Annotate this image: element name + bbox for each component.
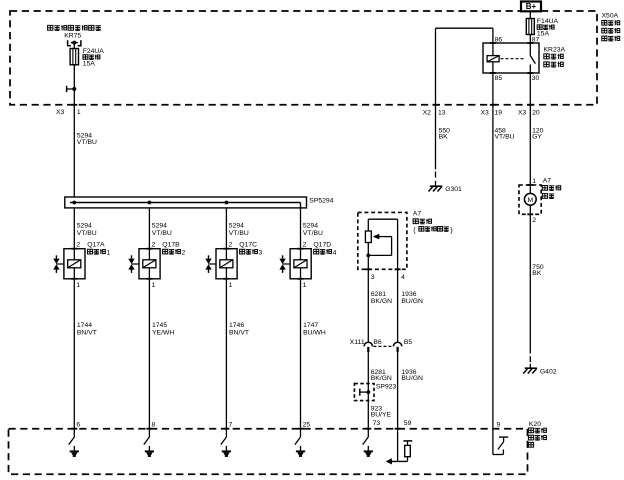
motor pin 1 label	[532, 178, 536, 185]
K20 pin 6 label	[76, 422, 80, 429]
wire X3-1 to splice pack SP5294, 5294 VT/BU	[71, 105, 77, 197]
wire SP5294 to injector Q17D, 5294 VT/BU	[300, 208, 302, 249]
label A7 燃油泵电机	[542, 177, 560, 198]
svg-text:BK/GN: BK/GN	[371, 375, 392, 382]
K20 low-side driver and ground for Q17B	[144, 429, 154, 457]
svg-text:B6: B6	[373, 339, 382, 346]
svg-text:X3: X3	[518, 110, 527, 117]
svg-text:2: 2	[182, 249, 186, 256]
svg-text:B5: B5	[404, 339, 413, 346]
svg-text:VT/BU: VT/BU	[229, 230, 249, 237]
svg-text:BN/VT: BN/VT	[77, 329, 97, 336]
wire F24UA to connector X3 pin 1	[73, 65, 75, 105]
K20 pin 9 internal switch	[493, 429, 508, 455]
svg-text:5294: 5294	[303, 223, 318, 230]
K20 pin 8 label	[152, 422, 156, 429]
svg-text:BK: BK	[439, 134, 449, 141]
svg-text:KR75: KR75	[64, 32, 81, 39]
relay KR75 contact symbol	[68, 40, 81, 46]
splice pack SP5294	[65, 197, 334, 208]
svg-text:BK: BK	[532, 270, 542, 277]
in-line terminal symbol on wire	[67, 86, 77, 92]
pin 87 label	[532, 37, 540, 44]
K20 pin 59 label	[404, 420, 412, 427]
wire SP5294 to injector Q17C, 5294 VT/BU	[225, 208, 227, 249]
ground G301	[429, 172, 463, 193]
wire label 6281 BK/GN below X111	[371, 369, 392, 382]
label 发动机控制继电器 KR75	[48, 25, 101, 39]
label K20 发动机控制模块	[528, 421, 546, 447]
svg-text:13: 13	[438, 110, 446, 117]
svg-text:Q17A: Q17A	[87, 242, 105, 249]
label Q17B pin 1	[152, 282, 156, 289]
svg-text:VT/BU: VT/BU	[152, 230, 172, 237]
connector X2 pin 13 labels	[423, 110, 446, 117]
label Q17A pin 1	[76, 282, 80, 289]
wire label 1745 YE/WH	[152, 322, 174, 336]
svg-text:X2: X2	[423, 110, 432, 117]
svg-text:SP5294: SP5294	[309, 198, 333, 205]
label Q17D pin 1	[303, 282, 307, 289]
label Q17C 喷油器3	[239, 242, 262, 257]
svg-text:5294: 5294	[152, 223, 167, 230]
svg-text:BN/VT: BN/VT	[229, 329, 249, 336]
sensor pin 3 label	[371, 274, 375, 281]
svg-text:G402: G402	[540, 369, 557, 376]
svg-text:5294: 5294	[77, 223, 92, 230]
battery B+ terminal	[521, 2, 541, 12]
wire label 1744 BN/VT	[77, 322, 97, 336]
connector X3 pin 20 labels	[518, 110, 540, 117]
sensor pin 4 label	[401, 274, 405, 281]
svg-text:2: 2	[76, 242, 80, 249]
level sensor wiper arm with arrow	[366, 219, 397, 269]
svg-text:3: 3	[371, 274, 375, 281]
injector Q17A 喷油器1	[53, 249, 85, 279]
connector X3 pin 1 labels	[56, 109, 81, 116]
label Q17A 喷油器1	[87, 242, 110, 257]
svg-text:X111: X111	[350, 339, 365, 346]
fuse F14UA 15A	[526, 18, 558, 37]
K20 pin 9 label	[497, 422, 501, 429]
fuse block X50A dashed enclosure	[10, 11, 597, 105]
svg-text:15A: 15A	[83, 61, 96, 68]
svg-text:X50A: X50A	[602, 12, 619, 19]
ground G402	[523, 356, 556, 375]
wire relay pin 85 to K20 pin 9	[490, 73, 496, 429]
svg-text:2: 2	[532, 217, 536, 224]
svg-text:X3: X3	[481, 110, 490, 117]
svg-text:25: 25	[303, 422, 311, 429]
svg-text:2: 2	[229, 242, 233, 249]
K20 pin 7 label	[229, 422, 233, 429]
pin 85 label	[495, 75, 503, 82]
svg-text:GY: GY	[532, 134, 542, 141]
svg-text:9: 9	[497, 422, 501, 429]
wire injector Q17D to K20 pin 25, 1747 BU/WH	[298, 279, 304, 429]
wire relay pin 86 to X2 pin 13	[433, 28, 493, 169]
svg-text:B+: B+	[526, 2, 537, 11]
svg-text:1: 1	[152, 282, 156, 289]
svg-text:YE/WH: YE/WH	[152, 329, 174, 336]
svg-text:1936: 1936	[401, 291, 416, 298]
fuel level sensor A7 燃油泵(液位传感器) dashed box	[358, 212, 407, 269]
relay coil KR23A	[487, 43, 499, 73]
K20 low-side driver and ground for Q17A	[69, 429, 79, 457]
connector X111 dashed link	[373, 345, 392, 347]
svg-text:VT/BU: VT/BU	[77, 230, 97, 237]
wire label 458 VT/BU	[495, 128, 515, 141]
wire label 5294 VT/BU (Q17A)	[77, 223, 97, 237]
wire label 1746 BN/VT	[229, 322, 249, 336]
wire SP5294 to injector Q17A, 5294 VT/BU	[73, 208, 75, 249]
svg-text:A7: A7	[543, 177, 552, 184]
wire relay pin 30 to fuel pump	[527, 73, 533, 185]
relay switch contact 87-30	[530, 43, 535, 73]
svg-text:5294: 5294	[229, 223, 244, 230]
label Q17C pin 1	[229, 282, 233, 289]
svg-text:G301: G301	[445, 186, 462, 193]
svg-text:X3: X3	[56, 109, 65, 116]
K20 low-side driver and ground for Q17C	[221, 429, 231, 457]
fuse F24UA 15A	[70, 48, 104, 68]
injector Q17D 喷油器4	[279, 249, 311, 279]
wire fuse F14UA to relay pin 87	[529, 35, 531, 44]
wire label 5294 VT/BU	[77, 132, 97, 146]
splice SP923	[354, 384, 396, 401]
injector Q17B 喷油器2	[128, 249, 160, 279]
wire label 5294 VT/BU (Q17C)	[229, 223, 249, 237]
K20 pin 73 label	[373, 420, 381, 427]
level sensor resistor element	[365, 219, 371, 269]
svg-text:BU/GN: BU/GN	[401, 298, 423, 305]
label X111	[350, 339, 365, 346]
svg-text:BU/YE: BU/YE	[371, 412, 392, 419]
wire injector Q17C to K20 pin 7, 1746 BN/VT	[223, 279, 229, 429]
wire sensor pin 4 to X111 B5, 1936 BU/GN	[397, 269, 399, 342]
connector X111 terminal B6	[364, 342, 372, 352]
K20 low-side driver and ground for Q17D	[295, 429, 305, 457]
svg-text:1: 1	[229, 282, 233, 289]
svg-text:1: 1	[532, 178, 536, 185]
svg-text:M: M	[527, 197, 533, 204]
svg-text:): )	[450, 225, 452, 234]
wire label 750 BK	[532, 264, 544, 277]
wire motor pin 2 to ground G402, 750 BK	[529, 214, 531, 353]
svg-text:1: 1	[303, 282, 307, 289]
svg-text:1: 1	[76, 282, 80, 289]
wire label 5294 VT/BU (Q17B)	[152, 223, 172, 237]
svg-text:1747: 1747	[303, 322, 318, 329]
svg-text:1746: 1746	[229, 322, 244, 329]
pin ticks on relay box	[490, 43, 533, 73]
label B6	[373, 339, 382, 346]
svg-text:8: 8	[152, 422, 156, 429]
fuel pump motor A7 燃油泵电机 dashed box	[519, 185, 541, 214]
svg-text:4: 4	[401, 274, 405, 281]
wire B+ to fuse F14UA	[529, 11, 531, 18]
wire injector Q17B to K20 pin 8, 1745 YE/WH	[146, 279, 152, 429]
label Q17D pin 2	[303, 242, 307, 249]
svg-text:85: 85	[495, 75, 503, 82]
svg-text:Q17C: Q17C	[239, 242, 257, 249]
wire label 923 BU/YE	[371, 405, 392, 418]
wire X111 B6 to K20 pin 73	[365, 352, 371, 429]
svg-text:6281: 6281	[371, 291, 386, 298]
svg-text:A7: A7	[413, 211, 422, 218]
svg-text:3: 3	[259, 249, 263, 256]
K20 low-side driver and ground for pin 73	[363, 429, 373, 457]
connector X111 terminal B5	[393, 342, 401, 352]
svg-text:2: 2	[152, 242, 156, 249]
label Q17B pin 2	[152, 242, 156, 249]
svg-text:1: 1	[106, 249, 110, 256]
svg-text:KR23A: KR23A	[544, 47, 566, 54]
wire label 550 BK	[439, 128, 451, 141]
svg-text:VT/BU: VT/BU	[303, 230, 323, 237]
svg-text:6: 6	[76, 422, 80, 429]
svg-text:1: 1	[77, 109, 81, 116]
svg-text:VT/BU: VT/BU	[495, 134, 515, 141]
injector Q17C 喷油器3	[205, 249, 237, 279]
label A7 燃油泵 (液位传感器)	[413, 211, 453, 235]
label B5	[404, 339, 413, 346]
label Q17D 喷油器4	[313, 242, 336, 257]
svg-text:Q17B: Q17B	[162, 242, 180, 249]
wire sensor pin 3 to X111 B6, 6281 BK/GN	[367, 269, 369, 342]
label Q17A pin 2	[76, 242, 80, 249]
svg-text:30: 30	[532, 75, 540, 82]
svg-text:BK/GN: BK/GN	[371, 298, 392, 305]
svg-text:K20: K20	[529, 421, 541, 428]
label X50A 发动机舱下保险丝盒	[602, 12, 620, 41]
label KR23A 燃油泵继电器	[544, 47, 566, 68]
wire label 5294 VT/BU (Q17D)	[303, 223, 323, 237]
sensor pin ticks	[365, 268, 400, 270]
wire label 1936 BU/GN	[401, 291, 423, 305]
motor pin 2 label	[532, 217, 536, 224]
relay actuation dashed link	[501, 58, 524, 60]
engine control module K20 dashed box	[9, 429, 528, 475]
wire SP5294 to injector Q17B, 5294 VT/BU	[148, 208, 150, 249]
svg-text:Q17D: Q17D	[313, 242, 331, 249]
svg-text:2: 2	[303, 242, 307, 249]
K20 pin 25 label	[303, 422, 311, 429]
K20 pin 59 internal resistor and signal arrow	[386, 429, 413, 465]
svg-text:BU/WH: BU/WH	[303, 329, 326, 336]
svg-text:73: 73	[373, 420, 381, 427]
wire X111 B5 to K20 pin 59	[395, 352, 401, 429]
wire label 1747 BU/WH	[303, 322, 326, 336]
svg-text:19: 19	[495, 110, 503, 117]
svg-text:1744: 1744	[77, 322, 92, 329]
svg-text:F24UA: F24UA	[83, 48, 105, 55]
label Q17C pin 2	[229, 242, 233, 249]
svg-text:4: 4	[333, 249, 337, 256]
svg-text:7: 7	[229, 422, 233, 429]
wire label 1936 BU/GN below X111	[401, 369, 423, 382]
svg-text:20: 20	[532, 110, 540, 117]
motor M symbol	[524, 185, 536, 214]
svg-text:VT/BU: VT/BU	[77, 139, 97, 146]
wire KR75 to fuse F24UA	[73, 43, 75, 49]
svg-text:BU/GN: BU/GN	[401, 375, 423, 382]
relay KR23A 燃油泵继电器 box	[483, 43, 539, 73]
wire label 120 GY	[532, 128, 544, 141]
label Q17B 喷油器2	[162, 242, 185, 257]
pin 30 label	[532, 75, 540, 82]
svg-text:SP923: SP923	[376, 384, 397, 391]
wire label 6281 BK/GN	[371, 291, 392, 305]
svg-text:59: 59	[404, 420, 412, 427]
wire injector Q17A to K20 pin 6, 1744 BN/VT	[71, 279, 77, 429]
svg-text:F14UA: F14UA	[537, 18, 559, 25]
connector X3 pin 19 labels	[481, 110, 503, 117]
svg-text:1745: 1745	[152, 322, 167, 329]
pin 86 label	[495, 37, 503, 44]
